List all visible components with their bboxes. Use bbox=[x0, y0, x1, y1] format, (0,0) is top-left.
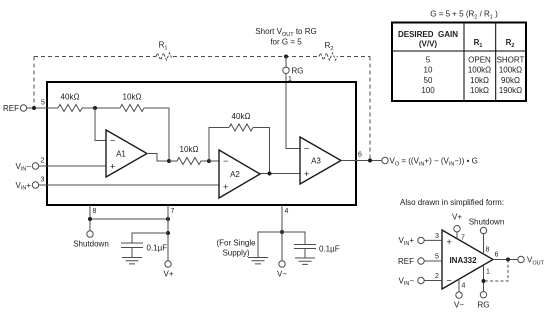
svg-text:−: − bbox=[447, 276, 452, 286]
svg-text:+: + bbox=[223, 182, 228, 192]
svg-text:5: 5 bbox=[435, 254, 439, 261]
IC boundary main box bbox=[47, 82, 356, 205]
node pin7 tie bbox=[166, 217, 170, 221]
gain table column separators bbox=[464, 23, 496, 102]
wire RG pin 1 bbox=[483, 265, 485, 292]
svg-text:+: + bbox=[304, 169, 309, 179]
wire A1 output jog bbox=[147, 154, 169, 162]
node A1 summing junction bbox=[93, 106, 97, 110]
wire 40k to 10k bbox=[82, 107, 120, 109]
wire A2 feedback down leg to output node bbox=[253, 128, 270, 174]
wire output to VOUT terminal bbox=[493, 259, 518, 261]
terminal V- (simplified) bbox=[456, 292, 462, 298]
wire dashed right vertical to output node bbox=[369, 57, 371, 161]
svg-text:RG: RG bbox=[292, 67, 304, 76]
terminal VO open circle bbox=[382, 157, 388, 163]
svg-text:DESIRED GAIN: DESIRED GAIN bbox=[398, 30, 458, 39]
op-amp A2 bbox=[219, 150, 260, 198]
svg-text:A3: A3 bbox=[311, 157, 321, 166]
svg-text:100: 100 bbox=[421, 86, 435, 95]
node A1 output bbox=[167, 159, 171, 163]
wire pin1 into box down to A3 inverting input bbox=[286, 74, 300, 149]
node REF junction with dashed network bbox=[32, 106, 36, 110]
wire cap to ground bbox=[304, 249, 306, 259]
wire cap branch bbox=[132, 233, 168, 243]
svg-text:40kΩ: 40kΩ bbox=[61, 93, 80, 102]
node output junction with dashed network bbox=[368, 159, 372, 163]
wire Shutdown into pin 8 bbox=[483, 234, 485, 254]
svg-text:4: 4 bbox=[285, 208, 289, 215]
wire tie between pin 8 and pin 7 bbox=[90, 218, 168, 220]
capacitor 0.1uF (V-) bbox=[294, 245, 316, 249]
terminal V+ bbox=[165, 261, 171, 267]
wire V+ into pin 7 bbox=[456, 232, 458, 239]
svg-text:A1: A1 bbox=[116, 150, 126, 159]
node output junction (simplified) bbox=[506, 258, 510, 262]
wire node to A2 inverting input bbox=[209, 160, 219, 162]
svg-text:for G = 5: for G = 5 bbox=[270, 38, 302, 47]
svg-text:REF: REF bbox=[398, 257, 414, 266]
node A2 summing junction bbox=[207, 159, 211, 163]
node junction RG-short on dashed line bbox=[284, 55, 288, 59]
svg-text:+: + bbox=[447, 237, 452, 247]
svg-text:V+: V+ bbox=[163, 270, 173, 279]
wire cap to ground bbox=[131, 248, 133, 258]
node RG junction (simplified) bbox=[482, 279, 486, 283]
svg-text:−: − bbox=[304, 144, 309, 154]
wire A2 feedback up leg bbox=[209, 128, 229, 162]
op-amp A3 bbox=[300, 137, 341, 184]
wire summing node down to A1 inverting input bbox=[95, 108, 106, 141]
svg-text:2: 2 bbox=[435, 273, 439, 280]
wire V- pin 4 bbox=[458, 279, 460, 292]
svg-text:INA332: INA332 bbox=[449, 256, 477, 265]
node pin4 branches bbox=[280, 230, 284, 234]
node pin8 tie bbox=[88, 217, 92, 221]
svg-text:10kΩ: 10kΩ bbox=[470, 86, 489, 95]
svg-text:3: 3 bbox=[41, 177, 45, 184]
svg-text:SHORT: SHORT bbox=[497, 56, 525, 65]
svg-text:(For Single: (For Single bbox=[216, 239, 256, 248]
svg-text:1: 1 bbox=[486, 269, 490, 276]
svg-text:Also drawn in simplified form:: Also drawn in simplified form: bbox=[400, 198, 504, 207]
wire VIN- into pin 2 bbox=[424, 280, 442, 282]
svg-text:V+: V+ bbox=[452, 213, 462, 222]
wire dashed external gain network horizontal bbox=[34, 56, 370, 58]
svg-text:Shutdown: Shutdown bbox=[469, 218, 505, 227]
svg-text:50: 50 bbox=[424, 76, 433, 85]
svg-text:10: 10 bbox=[424, 66, 433, 75]
svg-text:10kΩ: 10kΩ bbox=[470, 76, 489, 85]
svg-text:OPEN: OPEN bbox=[468, 56, 491, 65]
gain table frame bbox=[392, 23, 526, 102]
svg-text:6: 6 bbox=[495, 252, 499, 259]
wire 10k to A1 output node bbox=[144, 108, 169, 161]
resistor R1 (external, dashed) bbox=[156, 53, 172, 60]
svg-text:0.1µF: 0.1µF bbox=[319, 245, 340, 254]
svg-text:40kΩ: 40kΩ bbox=[232, 112, 251, 121]
svg-text:+: + bbox=[110, 162, 115, 172]
wire VIN- to A1 non-inverting input bbox=[39, 165, 106, 167]
terminal RG open circle bbox=[283, 67, 289, 73]
node pin7 cap branch bbox=[166, 231, 170, 235]
svg-text:5: 5 bbox=[41, 100, 45, 107]
ground (V+ bypass) bbox=[122, 258, 142, 264]
svg-text:−: − bbox=[110, 136, 115, 146]
wire REF input bbox=[27, 107, 47, 109]
ground (V- bypass) bbox=[295, 258, 315, 264]
svg-text:5: 5 bbox=[426, 56, 431, 65]
svg-text:A2: A2 bbox=[230, 170, 240, 179]
svg-text:8: 8 bbox=[486, 247, 490, 254]
wire VIN+ to A2 non-inverting input bbox=[39, 184, 219, 186]
terminal VOUT bbox=[518, 256, 524, 262]
svg-text:3: 3 bbox=[435, 233, 439, 240]
svg-text:−: − bbox=[223, 156, 228, 166]
svg-text:8: 8 bbox=[93, 208, 97, 215]
svg-text:7: 7 bbox=[461, 235, 465, 242]
wire pin 7 down to V+ terminal bbox=[167, 205, 169, 261]
node A2 output bbox=[268, 172, 272, 176]
svg-text:6: 6 bbox=[358, 152, 362, 159]
svg-text:10kΩ: 10kΩ bbox=[123, 93, 142, 102]
svg-text:V−: V− bbox=[454, 301, 464, 310]
resistor R2 (external, dashed) bbox=[319, 53, 338, 60]
resistor 10kOhm (A1 out to A2 in) bbox=[169, 158, 209, 165]
op-amp U1 INA332 simplified triangle bbox=[442, 230, 493, 289]
svg-text:Supply): Supply) bbox=[222, 249, 249, 258]
svg-text:100kΩ: 100kΩ bbox=[468, 66, 491, 75]
ground (V- left) bbox=[248, 258, 268, 264]
gain table header separator bbox=[392, 50, 526, 52]
svg-text:190kΩ: 190kΩ bbox=[499, 86, 522, 95]
wire pin 4 down to V- terminal bbox=[281, 205, 283, 261]
wire dashed VOUT to RG short bbox=[486, 260, 509, 282]
wire box edge to 40k bbox=[47, 107, 58, 109]
wire VIN+ into pin 3 bbox=[424, 239, 442, 241]
wire RG stub from dashed junction down bbox=[285, 57, 287, 68]
svg-text:90kΩ: 90kΩ bbox=[501, 76, 520, 85]
terminal V- bbox=[279, 261, 285, 267]
svg-text:2: 2 bbox=[41, 158, 45, 165]
svg-text:RG: RG bbox=[478, 301, 490, 310]
svg-text:7: 7 bbox=[171, 208, 175, 215]
svg-text:100kΩ: 100kΩ bbox=[499, 66, 522, 75]
svg-text:REF: REF bbox=[3, 104, 19, 113]
svg-text:0.1µF: 0.1µF bbox=[147, 244, 168, 253]
wire right cap branch bbox=[282, 232, 305, 245]
resistor 40kOhm (REF input) bbox=[58, 105, 82, 112]
terminal Shutdown bbox=[87, 231, 93, 237]
wire A2 output to A3 non-inverting input bbox=[260, 173, 300, 175]
wire A3 output to VO terminal bbox=[341, 160, 382, 162]
resistor 10kOhm (A1 feedback) bbox=[120, 105, 144, 112]
terminal RG (simplified) bbox=[480, 292, 486, 298]
wire pin 8 down to Shutdown terminal bbox=[89, 205, 91, 231]
svg-text:Shutdown: Shutdown bbox=[73, 240, 109, 249]
svg-text:(V/V): (V/V) bbox=[419, 40, 438, 49]
wire left ground branch bbox=[258, 232, 282, 258]
svg-text:10kΩ: 10kΩ bbox=[180, 145, 199, 154]
wire dashed left vertical to REF node bbox=[33, 57, 35, 109]
op-amp A1 bbox=[106, 130, 147, 177]
wire REF into pin 5 bbox=[424, 260, 442, 262]
capacitor 0.1uF (V+) bbox=[121, 243, 143, 248]
svg-text:V−: V− bbox=[277, 270, 287, 279]
svg-text:4: 4 bbox=[462, 283, 466, 290]
resistor 40kOhm (A2 feedback) bbox=[229, 124, 253, 131]
